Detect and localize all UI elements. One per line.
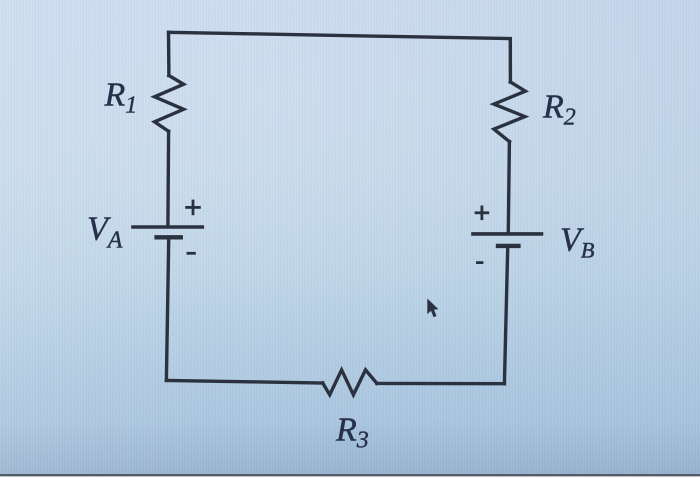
battery VB short plate (-) (498, 244, 518, 248)
resistor R2 zigzag (494, 82, 525, 142)
battery VB long plate (+) (473, 232, 542, 236)
wire right lower (bottom-right corner up to VB) (504, 248, 507, 384)
minus sign of VB (476, 261, 483, 264)
svg-text:R1: R1 (104, 77, 138, 119)
svg-text:R2: R2 (542, 89, 576, 131)
battery VA long plate (+) (133, 225, 202, 229)
wire left upper (top-left corner down to R1) (167, 32, 171, 75)
wire R1 to battery VA (166, 131, 170, 225)
mouse cursor arrow (427, 299, 438, 318)
svg-text:R3: R3 (335, 412, 369, 454)
wire top horizontal (169, 32, 511, 38)
wire VB to R2 (508, 142, 509, 232)
resistor R3 zigzag (323, 370, 377, 395)
wire bottom left (corner to R3) (166, 380, 322, 383)
minus sign of VA (187, 252, 196, 255)
svg-text:VB: VB (560, 222, 595, 263)
battery VA short plate (-) (157, 235, 181, 239)
resistor R1 zigzag (155, 76, 184, 132)
wire right upper (top-right corner down to R2) (509, 39, 513, 82)
wire VA to bottom-left corner (166, 239, 168, 380)
plus sign of VB (475, 206, 490, 221)
svg-text:VA: VA (87, 211, 123, 254)
plus sign of VA (185, 200, 201, 216)
wire bottom right (R3 to bottom-right corner) (377, 382, 505, 386)
